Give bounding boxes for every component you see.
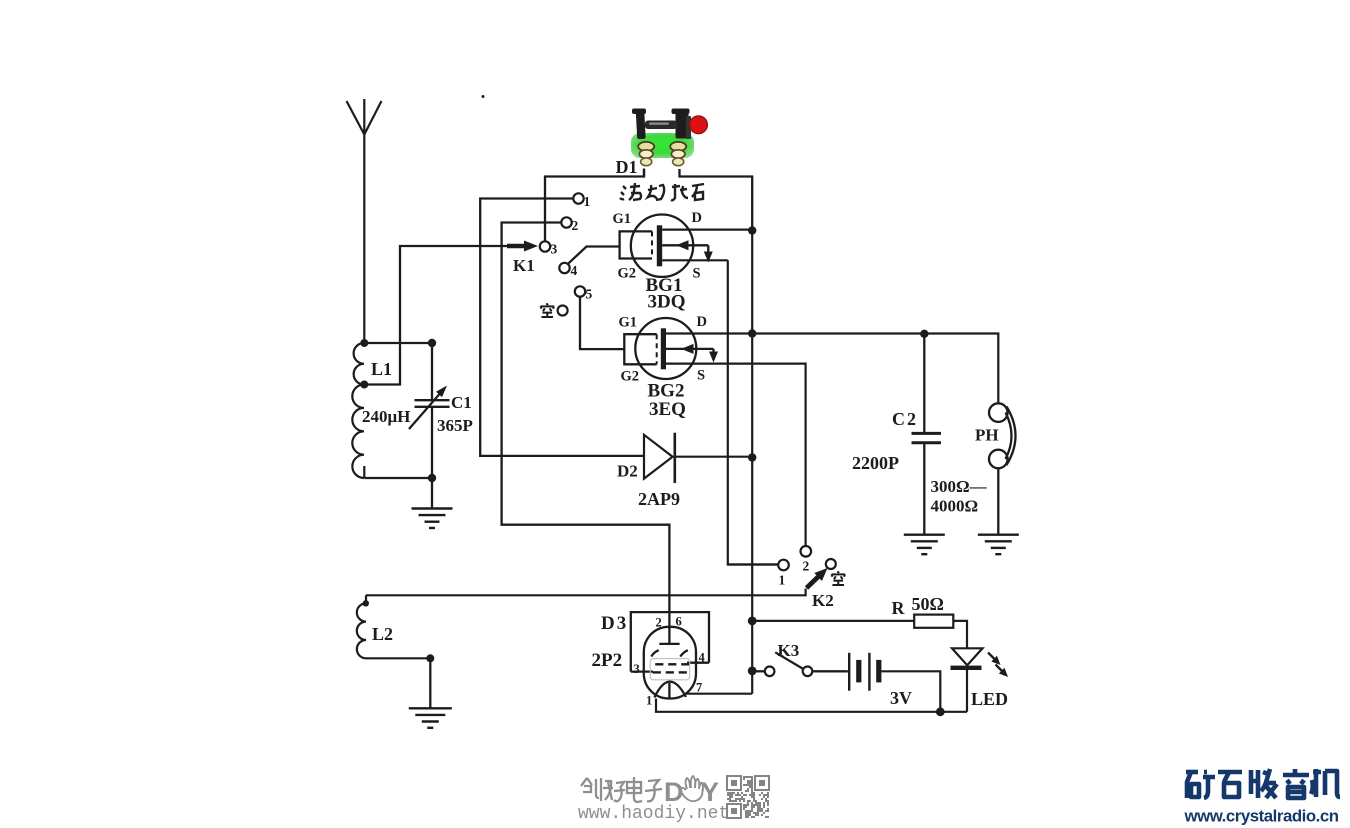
wire L1 bottom to C1 bottom — [364, 477, 432, 479]
tube D3 inner faint box — [650, 659, 689, 680]
wire D1 right lead to rail — [680, 169, 753, 231]
svg-text:C1: C1 — [451, 393, 472, 412]
wire K1 contact5 to BG2 gate — [580, 297, 624, 349]
capacitor C2 2200P — [923, 334, 925, 433]
wire rail R branch to K3 branch — [751, 621, 753, 671]
tube D3 screen arcs — [651, 650, 659, 656]
svg-text:PH: PH — [975, 426, 999, 445]
spare contact (kong) near K1 — [558, 306, 568, 316]
node D2 junction on rail — [748, 453, 756, 461]
antenna — [347, 99, 382, 135]
label kong near K1 spare contact — [546, 304, 548, 305]
svg-text:240μH: 240μH — [362, 407, 410, 426]
node L1 top junction — [360, 339, 368, 347]
svg-text:D1: D1 — [616, 157, 638, 177]
svg-text:D3: D3 — [601, 613, 628, 634]
node bottom rail junction — [936, 707, 945, 716]
svg-text:4000Ω: 4000Ω — [931, 497, 979, 516]
wire battery to bottom rail — [881, 671, 940, 712]
svg-text:L2: L2 — [372, 624, 393, 644]
svg-text:G1: G1 — [613, 211, 632, 227]
watermark chuanghao-dianzi DIY — [581, 778, 587, 786]
tube D3 pin7 lead — [686, 693, 752, 695]
switch K1 wiper arrow — [507, 244, 527, 249]
wire K1 contact2 to D3 top grid — [502, 223, 670, 644]
coil L2 — [363, 600, 369, 606]
label huodong-kuangshi annotation — [620, 186, 626, 199]
svg-text:R: R — [892, 598, 906, 618]
resistor R 50ohm — [914, 615, 953, 628]
switch K1 contact 2 — [561, 217, 571, 227]
svg-text:K1: K1 — [513, 256, 535, 275]
svg-text:2200P: 2200P — [852, 453, 899, 473]
tube D3 outer wiring box — [631, 612, 709, 672]
ground below PH — [978, 534, 1019, 536]
tube D3 pin1 lead and bottom wire — [656, 699, 967, 712]
svg-text:1: 1 — [584, 194, 591, 209]
wire L1 tap to K1 wiper — [364, 246, 533, 385]
LED — [952, 648, 983, 665]
wire rail BG2D to D2 cathode — [751, 334, 753, 458]
wire C1 bottom to ground — [431, 478, 433, 509]
node BG1 drain junction — [748, 226, 756, 234]
wire rail D2 to R branch — [751, 458, 753, 621]
tube D3 envelope — [644, 627, 696, 699]
svg-text:S: S — [697, 368, 705, 384]
switch K3 — [752, 670, 765, 672]
wire PH bottom to ground — [997, 468, 999, 534]
LED light arrows — [988, 653, 998, 663]
svg-text:1: 1 — [779, 573, 786, 588]
svg-text:K3: K3 — [778, 641, 800, 660]
diode D2 2AP9 — [644, 435, 673, 479]
svg-text:2: 2 — [803, 559, 810, 574]
wire L2 top to K2 wiper — [366, 589, 806, 596]
svg-text:6: 6 — [676, 615, 682, 629]
wire D1 left lead — [643, 169, 645, 177]
svg-text:C2: C2 — [892, 409, 918, 429]
wire K1 contact1 to D2 anode — [480, 199, 644, 456]
headphone PH terminals — [989, 403, 1008, 422]
wire BG2 drain to C2/PH — [666, 334, 998, 404]
svg-text:365P: 365P — [437, 416, 473, 435]
switch K2 spare contact — [826, 559, 836, 569]
switch K1 contact 4 — [559, 263, 569, 273]
logo kuang-shi-shou-yin-ji — [1186, 770, 1198, 775]
svg-text:K2: K2 — [812, 591, 834, 610]
svg-text:S: S — [693, 266, 701, 282]
switch K1 contact 1 — [573, 193, 583, 203]
svg-text:300Ω—: 300Ω— — [931, 477, 988, 496]
svg-text:3: 3 — [634, 662, 640, 676]
ground below L2 — [409, 707, 452, 709]
wire BG1 source to K2 contact1 — [728, 260, 778, 564]
switch K2 contact 2 — [801, 546, 812, 557]
svg-text:4: 4 — [571, 263, 578, 278]
svg-text:3DQ: 3DQ — [648, 292, 686, 313]
svg-text:7: 7 — [696, 681, 702, 695]
svg-text:2AP9: 2AP9 — [638, 489, 680, 509]
ground below C1 — [412, 507, 453, 509]
node L1 tap junction — [360, 381, 368, 389]
svg-text:LED: LED — [971, 689, 1008, 709]
wire antenna down to L1 top — [363, 135, 365, 344]
node C2 top junction — [920, 330, 928, 338]
svg-text:G2: G2 — [621, 369, 640, 385]
svg-text:G2: G2 — [618, 266, 637, 282]
svg-text:G1: G1 — [619, 315, 638, 331]
switch K1 contact 3 — [540, 241, 550, 251]
wire K1 contact4 to BG1 gate — [568, 247, 620, 264]
wire L2 bottom to ground — [366, 657, 430, 659]
svg-text:Y: Y — [701, 777, 719, 807]
ground below C2 — [904, 534, 945, 536]
wire R branch — [752, 620, 914, 622]
svg-text:1: 1 — [646, 694, 652, 708]
label kong near K2 spare contact — [837, 572, 839, 573]
svg-text:5: 5 — [586, 287, 593, 302]
wire K3 to battery — [812, 670, 848, 672]
wire R to LED — [953, 621, 967, 648]
svg-text:L1: L1 — [371, 359, 392, 379]
battery 3V — [848, 653, 850, 691]
switch K2 wiper arrow — [807, 576, 820, 589]
watermark QR code — [727, 776, 769, 818]
svg-text:2: 2 — [656, 616, 662, 630]
node BG2 drain junction — [748, 329, 756, 337]
svg-text:3: 3 — [551, 242, 558, 257]
svg-text:3V: 3V — [890, 688, 912, 708]
tube D3 pin4 lead — [687, 662, 709, 664]
svg-text:3EQ: 3EQ — [649, 399, 686, 420]
svg-text:2P2: 2P2 — [592, 650, 623, 671]
tube D3 plate — [659, 643, 679, 645]
wire rail K3 branch to D3 pin7 — [751, 671, 753, 694]
coil L1 — [352, 343, 364, 478]
svg-text:2: 2 — [572, 218, 579, 233]
wire K1 contact3 up to D1 rail — [545, 169, 644, 242]
transistor BG2 — [635, 318, 696, 379]
svg-text:D: D — [692, 210, 702, 226]
tube D3 filament — [654, 682, 686, 698]
headphone PH bracket — [1007, 407, 1016, 466]
wire K2 contact1 to BG1 source line — [728, 563, 778, 565]
tube D3 pin3 lead — [631, 670, 653, 672]
switch K2 contact 1 — [778, 560, 789, 571]
wire BG2 source to K2 contact2 — [666, 364, 806, 546]
node C1 bottom junction — [428, 474, 436, 482]
speck — [482, 95, 485, 98]
svg-text:D2: D2 — [617, 462, 638, 481]
node R branch junction — [748, 617, 757, 626]
tube D3 grid dashes — [655, 663, 663, 665]
switch K1 contact 5 — [575, 286, 585, 296]
wire main right rail (D1 to BG1 D) segment — [751, 231, 753, 334]
node K3 branch junction — [748, 667, 757, 676]
svg-text:50Ω: 50Ω — [912, 594, 944, 614]
capacitor C1 (variable 365P) — [431, 343, 433, 400]
transistor BG1 — [631, 215, 693, 277]
svg-text:www.crystalradio.cn: www.crystalradio.cn — [1184, 807, 1339, 826]
svg-text:www.haodiy.net: www.haodiy.net — [578, 804, 729, 824]
wire L1 top to C1 top — [364, 342, 432, 344]
node C1 top junction — [428, 339, 436, 347]
svg-text:D: D — [697, 314, 707, 330]
svg-text:4: 4 — [699, 651, 706, 665]
detector D1 (photo of adjustable crystal) — [631, 109, 707, 166]
wire D2 cathode to rail — [675, 456, 752, 458]
